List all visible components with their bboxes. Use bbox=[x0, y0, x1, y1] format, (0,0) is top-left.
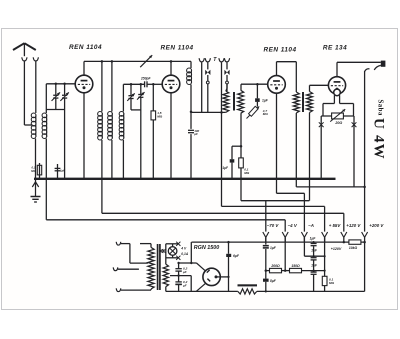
svg-text:MΩ: MΩ bbox=[329, 281, 335, 285]
svg-text:1µF: 1µF bbox=[60, 169, 65, 173]
svg-text:10kΩ: 10kΩ bbox=[349, 246, 358, 250]
svg-text:250pF: 250pF bbox=[140, 77, 152, 81]
svg-text:pF: pF bbox=[193, 132, 198, 136]
svg-text:MΩ: MΩ bbox=[157, 115, 163, 119]
svg-text:−70 V: −70 V bbox=[267, 223, 280, 228]
svg-text:−4 V: −4 V bbox=[288, 223, 298, 228]
svg-text:+200 V: +200 V bbox=[369, 223, 384, 228]
svg-text:1µF: 1µF bbox=[310, 236, 317, 240]
svg-text:4 V: 4 V bbox=[180, 246, 187, 250]
svg-text:Saba: Saba bbox=[376, 100, 383, 116]
svg-text:1µF: 1µF bbox=[311, 248, 318, 252]
svg-text:−A: −A bbox=[308, 223, 314, 228]
svg-text:REN 1104: REN 1104 bbox=[69, 44, 102, 51]
svg-text:µF: µF bbox=[182, 283, 187, 287]
svg-text:RE 134: RE 134 bbox=[323, 45, 347, 52]
svg-text:8µF: 8µF bbox=[270, 279, 277, 283]
svg-text:U 4W: U 4W bbox=[371, 118, 387, 160]
svg-text:+ 55V: + 55V bbox=[329, 223, 342, 228]
svg-text:200Ω: 200Ω bbox=[270, 264, 280, 268]
svg-text:1µF: 1µF bbox=[311, 263, 318, 267]
svg-text:6µF: 6µF bbox=[233, 254, 240, 258]
svg-text:20Ω: 20Ω bbox=[334, 121, 342, 125]
svg-text:1µF: 1µF bbox=[262, 99, 269, 103]
svg-text:1µF: 1µF bbox=[270, 246, 277, 250]
svg-text:µF: µF bbox=[182, 270, 187, 274]
svg-text:MΩ: MΩ bbox=[244, 171, 250, 175]
svg-text:MΩ: MΩ bbox=[263, 112, 269, 116]
svg-text:150Ω: 150Ω bbox=[291, 264, 300, 268]
svg-text:RGN 1500: RGN 1500 bbox=[194, 245, 219, 251]
svg-text:+120 V: +120 V bbox=[346, 223, 361, 228]
svg-text:0,1A: 0,1A bbox=[181, 252, 189, 256]
svg-text:REN 1104: REN 1104 bbox=[160, 45, 193, 52]
svg-text:REN 1104: REN 1104 bbox=[263, 47, 296, 54]
svg-text:MΩ: MΩ bbox=[31, 169, 36, 173]
svg-text:+120V: +120V bbox=[331, 247, 342, 251]
